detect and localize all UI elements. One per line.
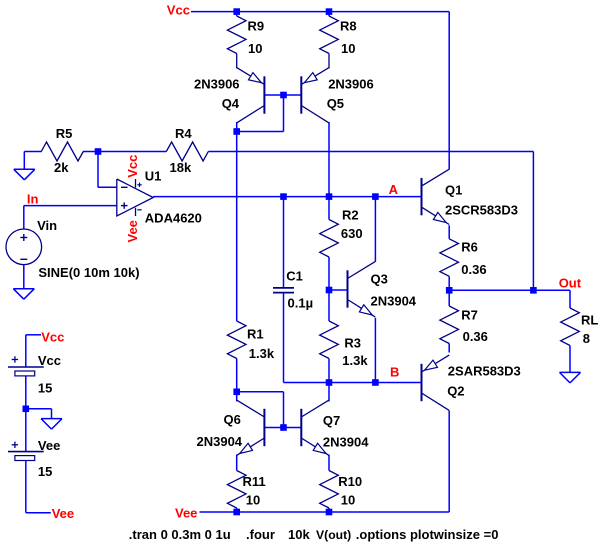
junction node Q6/Q7 bases: [280, 424, 287, 431]
svg-text:0.36: 0.36: [463, 329, 488, 344]
value 15 (V1): [38, 380, 52, 395]
label 2N3904 (Q3): [371, 294, 417, 309]
svg-text:2k: 2k: [54, 160, 69, 175]
net label Vcc (top rail): [167, 2, 190, 17]
svg-text:V(out): V(out): [316, 528, 351, 542]
svg-text:Q7: Q7: [323, 413, 340, 428]
junction node supply midpoint: [23, 406, 30, 413]
resistor R2: [320, 220, 339, 258]
wire bottom mirror base tie: [237, 392, 284, 428]
net label Vee (rail): [175, 506, 197, 521]
wire Q1 emitter to R6: [448, 225, 450, 239]
svg-text:R7: R7: [461, 308, 478, 323]
svg-text:15: 15: [38, 464, 52, 479]
junction node inverting input: [95, 148, 102, 155]
value 10 (R8): [341, 41, 355, 56]
wire R5-R4 inverting node: [83, 151, 166, 153]
wire Q6-Q7 base rail: [264, 427, 301, 429]
svg-text:SINE(0 10m 10k): SINE(0 10m 10k): [38, 265, 139, 280]
value 10 (R9): [248, 41, 262, 56]
directive V(out): [316, 528, 351, 542]
junction node A / R2: [326, 193, 333, 200]
label Q3: [371, 272, 388, 287]
junction node A / Q3 collector: [372, 193, 379, 200]
junction node A / C1: [280, 193, 287, 200]
label Vin: [37, 218, 57, 233]
directive .tran: [129, 527, 231, 542]
resistor R6: [440, 239, 459, 276]
label 2SCR583D3: [445, 203, 518, 218]
svg-text:Vin: Vin: [37, 218, 57, 233]
net label Vcc (op-amp supply): [125, 155, 140, 178]
value 0.36 (R7): [463, 329, 488, 344]
transistor Q5 (PNP): [301, 68, 329, 123]
wire Q6 emitter to R11: [236, 455, 238, 471]
net label Vee (op-amp supply): [125, 220, 140, 242]
svg-text:R8: R8: [340, 19, 357, 34]
value 0.1µ: [288, 296, 314, 311]
transistor Q7 (NPN): [301, 400, 329, 455]
wire R7 to Q2 emitter: [448, 344, 450, 353]
svg-text:10: 10: [341, 493, 355, 508]
svg-text:Q5: Q5: [327, 96, 344, 111]
svg-text:18k: 18k: [170, 160, 192, 175]
svg-text:R3: R3: [344, 335, 361, 350]
svg-text:R2: R2: [342, 208, 359, 223]
label Q6: [224, 412, 241, 427]
svg-text:Vcc: Vcc: [38, 353, 61, 368]
transistor Q1 (NPN): [422, 169, 450, 224]
resistor R3: [320, 321, 339, 359]
label 2N3904 (Q6): [197, 434, 243, 449]
label R1: [247, 327, 264, 342]
value 630: [341, 226, 363, 241]
svg-text:10: 10: [246, 493, 260, 508]
svg-text:8: 8: [583, 331, 590, 346]
junction node rail-R8: [326, 8, 333, 15]
svg-text:1.3k: 1.3k: [342, 353, 368, 368]
label R6: [461, 240, 478, 255]
svg-text:2N3904: 2N3904: [323, 435, 369, 450]
wire R1 to Q6 collector: [236, 359, 238, 402]
wire Q4 collector chain: [236, 122, 238, 321]
wire node A to C1: [283, 197, 285, 288]
value 10 (R11): [246, 493, 260, 508]
junction node Vee-R10: [326, 509, 333, 516]
label R8: [340, 19, 357, 34]
ground (R5): [14, 169, 35, 180]
svg-text:630: 630: [341, 226, 363, 241]
svg-text:2SCR583D3: 2SCR583D3: [445, 203, 518, 218]
svg-text:2N3906: 2N3906: [194, 77, 240, 92]
junction node B / R3: [326, 379, 333, 386]
wire inverting input drop: [98, 152, 117, 188]
svg-text:R11: R11: [243, 474, 266, 489]
transistor Q2 (PNP): [422, 355, 450, 410]
transistor Q6 (NPN): [237, 400, 265, 455]
svg-text:.tran 0 0.3m 0 1u: .tran 0 0.3m 0 1u: [129, 527, 231, 542]
svg-text:15: 15: [38, 380, 52, 395]
label R10: [338, 474, 362, 489]
wire C1 to node B: [283, 292, 285, 382]
svg-text:Vcc: Vcc: [41, 329, 64, 344]
label 2N3906 (Q4): [194, 77, 240, 92]
resistor R10: [320, 471, 339, 509]
svg-text:1.3k: 1.3k: [249, 346, 275, 361]
net label B: [390, 365, 399, 380]
svg-text:ADA4620: ADA4620: [145, 210, 202, 225]
wire Vcc top rail: [191, 11, 449, 13]
voltage source Vin: [6, 229, 42, 265]
svg-text:Vcc: Vcc: [125, 155, 140, 178]
svg-text:Vee: Vee: [175, 506, 197, 521]
junction node Out / feedback: [530, 287, 537, 294]
resistor R9: [227, 12, 246, 69]
ground (Vin): [13, 289, 34, 300]
label Q2: [447, 383, 464, 398]
wire top mirror base tie: [237, 95, 284, 132]
transistor Q3 (NPN): [348, 262, 376, 317]
svg-text:U1: U1: [145, 168, 162, 183]
wire supply midpoint to ground: [26, 409, 52, 419]
label R11: [243, 474, 266, 489]
net label Vee (battery): [52, 506, 74, 521]
label Vee (V2 name): [38, 438, 60, 453]
svg-text:R1: R1: [247, 327, 264, 342]
svg-text:R9: R9: [248, 19, 265, 34]
value SINE(0 10m 10k): [38, 265, 139, 280]
svg-text:R10: R10: [338, 474, 362, 489]
svg-text:RL: RL: [581, 312, 598, 327]
label R4: [175, 126, 192, 141]
label Q1: [445, 183, 462, 198]
label R7: [461, 308, 478, 323]
label U1: [145, 168, 162, 183]
label Vcc (V1 name): [38, 353, 61, 368]
ground (RL): [560, 372, 581, 383]
wire Q7 emitter to R10: [328, 455, 330, 471]
svg-text:In: In: [27, 192, 39, 207]
wire Out row: [449, 289, 570, 291]
svg-text:10: 10: [341, 41, 355, 56]
svg-text:R6: R6: [461, 240, 478, 255]
value 0.36 (R6): [461, 262, 486, 277]
resistor RL: [561, 308, 580, 346]
wire Q3 collector up: [374, 197, 376, 262]
svg-text:Vee: Vee: [125, 220, 140, 242]
value 1.3k (R1): [249, 346, 275, 361]
svg-text:A: A: [389, 182, 399, 197]
value 2k: [54, 160, 69, 175]
junction node Q3 base: [326, 287, 333, 294]
svg-text:0.36: 0.36: [461, 262, 486, 277]
wire RL to ground: [569, 346, 571, 373]
wire feedback Out horizontal: [208, 151, 533, 153]
svg-text:0.1µ: 0.1µ: [288, 296, 314, 311]
label R9: [248, 19, 265, 34]
net label A: [389, 182, 399, 197]
svg-text:.four: .four: [246, 527, 275, 542]
wire R10 to Vee rail: [328, 508, 330, 512]
wire node B row: [284, 382, 422, 384]
label 2N3904 (Q7): [323, 435, 369, 450]
wire Q3 base lead: [329, 289, 348, 291]
value 15 (V2): [38, 464, 52, 479]
net label Vcc (battery): [41, 329, 64, 344]
wire R6 to R7: [448, 276, 450, 306]
svg-text:.options plotwinsize =0: .options plotwinsize =0: [356, 527, 499, 542]
net label In: [27, 192, 39, 207]
svg-text:2N3904: 2N3904: [197, 434, 243, 449]
label R5: [56, 126, 73, 141]
svg-text:R4: R4: [175, 126, 192, 141]
value 1.3k (R3): [342, 353, 368, 368]
svg-text:Vee: Vee: [38, 438, 60, 453]
wire Q5 collector down: [328, 122, 330, 197]
resistor R1: [227, 321, 246, 359]
label R2: [342, 208, 359, 223]
svg-text:10: 10: [248, 41, 262, 56]
wire R5 left to ground: [24, 152, 41, 170]
wire Q7 collector to node B: [328, 383, 330, 402]
resistor R11: [227, 471, 246, 509]
op-amp U1: [117, 179, 153, 216]
wire Q3 emitter down: [374, 318, 376, 383]
svg-text:Q1: Q1: [445, 183, 462, 198]
label 2SAR583D3: [448, 364, 521, 379]
directive .options: [356, 527, 499, 542]
label Q4: [222, 96, 240, 111]
wire node A row: [153, 196, 421, 198]
svg-text:2N3904: 2N3904: [371, 294, 417, 309]
junction node Q4 collector tie: [233, 128, 240, 135]
capacitor C1: [273, 288, 294, 293]
directive .four: [246, 527, 310, 542]
ground (supply midpoint): [41, 419, 62, 430]
wire node A to R2: [328, 197, 330, 220]
battery V2 (Vee supply): [8, 442, 44, 461]
wire V1 to V2: [25, 376, 27, 452]
svg-text:Q3: Q3: [371, 272, 388, 287]
wire Q4-Q5 base rail: [264, 94, 301, 96]
svg-text:Out: Out: [559, 276, 582, 291]
wire R2 to R3: [328, 257, 330, 321]
svg-text:R5: R5: [56, 126, 73, 141]
svg-text:B: B: [390, 365, 399, 380]
svg-text:Q6: Q6: [224, 412, 241, 427]
resistor R5: [41, 142, 83, 161]
wire Out to RL: [569, 290, 571, 308]
label 2N3906 (Q5): [328, 77, 374, 92]
wire R3 to node B: [328, 359, 330, 383]
value 8: [583, 331, 590, 346]
svg-text:Q4: Q4: [222, 96, 240, 111]
wire Q2 collector to Vee rail: [448, 411, 450, 512]
label ADA4620: [145, 210, 202, 225]
wire V2 to Vee label: [26, 460, 51, 512]
resistor R7: [440, 306, 459, 344]
label RL: [581, 312, 598, 327]
label R3: [344, 335, 361, 350]
junction node Q4/Q5 bases: [280, 92, 287, 99]
svg-text:Vcc: Vcc: [167, 2, 190, 17]
svg-text:C1: C1: [286, 269, 303, 284]
svg-text:Q2: Q2: [447, 383, 464, 398]
resistor R8: [320, 12, 339, 69]
wire Vin to ground: [23, 264, 25, 288]
junction node rail-R9: [233, 8, 240, 15]
net label Out: [559, 276, 582, 291]
svg-text:2SAR583D3: 2SAR583D3: [448, 364, 521, 379]
svg-text:2N3906: 2N3906: [328, 77, 374, 92]
wire Q1 collector to Vcc rail: [448, 12, 450, 170]
junction node B / Q3 emitter: [372, 379, 379, 386]
battery V1 (Vcc supply): [8, 356, 44, 376]
wire R11 to Vee rail: [236, 508, 238, 512]
junction node Vee-R11: [233, 509, 240, 516]
label C1: [286, 269, 303, 284]
wire feedback Out vertical: [532, 152, 534, 291]
transistor Q4 (PNP): [237, 68, 265, 123]
svg-text:Vee: Vee: [52, 506, 74, 521]
label Q7: [323, 413, 340, 428]
junction node R1 bottom tie: [233, 389, 240, 396]
wire In to op-amp +: [24, 206, 117, 230]
wire V1 to Vcc label: [26, 335, 41, 367]
svg-text:10k: 10k: [288, 527, 310, 542]
wire Vee rail: [200, 511, 450, 513]
label Q5: [327, 96, 344, 111]
value 10 (R10): [341, 493, 355, 508]
resistor R4: [166, 142, 208, 161]
junction node Out / R6-R7: [446, 287, 453, 294]
value 18k: [170, 160, 192, 175]
